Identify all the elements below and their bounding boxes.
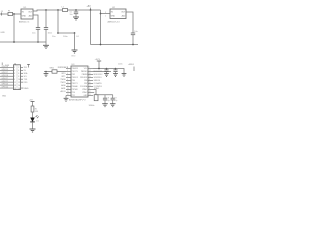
svg-text:1: 1 [105, 16, 106, 18]
svg-text:3: 3 [105, 12, 106, 14]
junction [98, 68, 100, 70]
resistor R1 [31, 106, 38, 113]
svg-text:10u: 10u [70, 14, 73, 16]
junction [90, 9, 92, 11]
wire [44, 71, 66, 73]
svg-text:22p: 22p [114, 100, 117, 102]
label AREF [129, 63, 135, 71]
svg-text:11: 11 [14, 82, 16, 84]
wire [93, 71, 111, 73]
svg-text:PD4: PD4 [72, 80, 75, 82]
capacitor C7 [104, 68, 108, 74]
svg-text:100n: 100n [118, 64, 122, 66]
wire [57, 10, 59, 33]
power flag [29, 100, 35, 107]
J2 left labels [2, 66, 9, 98]
svg-text:16: 16 [18, 88, 20, 90]
wire [45, 72, 47, 74]
ground [72, 50, 78, 53]
svg-text:AMS1117-3.3: AMS1117-3.3 [108, 20, 121, 23]
junction [57, 9, 59, 11]
svg-text:6: 6 [18, 73, 19, 75]
wire [96, 94, 113, 96]
U3 right stubs [88, 69, 93, 96]
J2 right stubs [21, 67, 24, 82]
wire [45, 42, 47, 45]
capacitor C2 [44, 28, 53, 35]
capacitor C6 [131, 31, 139, 35]
svg-text:330: 330 [35, 111, 38, 113]
ground [64, 98, 69, 101]
svg-text:SCL: SCL [24, 76, 28, 78]
wire [13, 14, 15, 42]
svg-text:AIN0: AIN0 [61, 84, 65, 87]
MCU U3 [67, 64, 91, 102]
svg-text:MISO/D12: MISO/D12 [94, 74, 103, 76]
svg-text:GPIO24: GPIO24 [2, 87, 9, 89]
header J2 [2, 63, 20, 90]
svg-text:9: 9 [14, 79, 15, 81]
svg-text:GPIO27: GPIO27 [2, 78, 9, 80]
regulator U2 [108, 7, 127, 23]
svg-text:D1: D1 [36, 121, 38, 123]
svg-text:PD2: PD2 [72, 74, 75, 76]
svg-text:GND: GND [22, 15, 27, 17]
wire rail [91, 44, 139, 46]
connector J1 [1, 11, 4, 16]
fuse F1 [8, 10, 13, 15]
svg-text:PB4/MI: PB4/MI [82, 74, 88, 76]
wire [104, 95, 106, 99]
svg-text:OC0A/D5: OC0A/D5 [94, 82, 102, 85]
ground [110, 104, 116, 107]
crystal Y1 [89, 95, 99, 107]
svg-text:10u: 10u [134, 31, 138, 33]
svg-text:AMS1117-5: AMS1117-5 [19, 21, 30, 24]
svg-text:INT0: INT0 [61, 73, 65, 75]
svg-text:16MHz: 16MHz [89, 105, 95, 107]
wire [104, 100, 106, 104]
svg-text:PB5/SCK: PB5/SCK [80, 77, 88, 79]
wire [93, 90, 96, 95]
ground [44, 74, 49, 77]
power flag [27, 65, 30, 68]
junction [100, 13, 102, 15]
svg-text:RXD0: RXD0 [60, 67, 65, 69]
svg-text:+5V: +5V [87, 6, 92, 8]
svg-text:22p: 22p [107, 100, 110, 102]
svg-text:MOSI/D11: MOSI/D11 [94, 71, 103, 73]
svg-text:GPIO18: GPIO18 [2, 75, 9, 77]
power flag +3V3 [95, 59, 102, 69]
wire [112, 100, 114, 104]
capacitor C9 [103, 98, 107, 100]
svg-text:8: 8 [18, 76, 19, 78]
svg-text:SS/D10: SS/D10 [94, 80, 101, 82]
wire [45, 29, 47, 42]
svg-text:TMR1: TMR1 [60, 82, 65, 84]
wire [126, 12, 133, 33]
power flag +5V [87, 6, 92, 10]
svg-text:5: 5 [14, 73, 15, 75]
wire [32, 112, 34, 118]
J2 pin 16 stub [21, 87, 24, 89]
svg-text:PD6/A0: PD6/A0 [72, 85, 78, 88]
wire [93, 69, 124, 74]
svg-text:10: 10 [18, 79, 20, 81]
wire [33, 10, 101, 11]
wire [112, 95, 114, 99]
svg-text:SCK/D13: SCK/D13 [94, 77, 102, 79]
inductor L1 [62, 6, 68, 11]
ground [104, 74, 109, 77]
wire [65, 96, 67, 99]
svg-text:XTAL1: XTAL1 [82, 88, 87, 91]
svg-text:GND: GND [2, 96, 7, 98]
junction [37, 41, 39, 43]
ground [113, 74, 118, 77]
ground [43, 45, 49, 48]
svg-text:PD1/TX: PD1/TX [72, 71, 79, 73]
svg-text:PD3/OC: PD3/OC [72, 77, 79, 79]
svg-text:INT1: INT1 [61, 76, 65, 78]
wire [100, 10, 102, 45]
wire [132, 35, 134, 45]
svg-text:XTAL2: XTAL2 [82, 91, 87, 94]
svg-text:7: 7 [14, 76, 15, 78]
U3 left stubs [66, 69, 71, 96]
J2 right labels [24, 67, 28, 84]
svg-text:PB7: PB7 [84, 83, 87, 85]
junction [45, 9, 47, 11]
junction [74, 32, 76, 34]
svg-text:PD5/T1: PD5/T1 [72, 83, 78, 85]
wire [33, 15, 38, 28]
svg-text:GND: GND [71, 56, 76, 58]
svg-text:PB3/MO: PB3/MO [81, 71, 88, 73]
svg-text:GPIO22: GPIO22 [2, 81, 9, 83]
J2 left pin wires [0, 67, 14, 88]
regulator U1 [19, 7, 33, 24]
wire [58, 32, 75, 34]
U3 right labels [94, 71, 103, 97]
junction [132, 44, 134, 46]
junction [13, 13, 15, 15]
svg-text:ATMEGA328P-PU: ATMEGA328P-PU [69, 98, 86, 101]
svg-text:PC4/SDA: PC4/SDA [80, 85, 88, 88]
svg-text:13: 13 [14, 85, 16, 87]
switch SW1 [50, 67, 58, 73]
capacitor C8 [113, 68, 117, 74]
junction [57, 32, 59, 34]
svg-text:15: 15 [14, 88, 16, 90]
capacitor C1 [32, 28, 40, 35]
svg-text:PD0/RX: PD0/RX [72, 68, 79, 70]
svg-text:PC0: PC0 [72, 92, 75, 94]
svg-text:3V3: 3V3 [24, 67, 27, 69]
svg-text:ADJ: ADJ [29, 14, 33, 17]
svg-text:1: 1 [14, 67, 15, 69]
junction [45, 71, 47, 73]
wire [90, 10, 92, 45]
junction [13, 41, 15, 43]
ground [73, 17, 79, 20]
svg-text:TMR0: TMR0 [60, 79, 65, 81]
svg-text:GPIO17: GPIO17 [2, 72, 9, 74]
svg-text:AIN1: AIN1 [61, 87, 65, 90]
svg-text:PD7/A1: PD7/A1 [72, 88, 78, 91]
svg-text:R1: R1 [35, 108, 37, 110]
svg-text:GND: GND [24, 88, 29, 90]
wire [101, 13, 111, 15]
svg-text:12: 12 [18, 82, 20, 84]
svg-text:ADC0: ADC0 [60, 90, 65, 93]
wire [0, 13, 8, 15]
junction [100, 44, 102, 46]
LED D1 [30, 115, 39, 123]
ground [102, 104, 108, 107]
svg-text:3: 3 [14, 70, 15, 72]
svg-text:PB6: PB6 [84, 80, 87, 82]
wire [13, 13, 22, 15]
wire [37, 29, 39, 42]
wire [74, 33, 76, 50]
wire [93, 92, 94, 94]
svg-text:GND: GND [111, 15, 116, 17]
svg-text:GPIO14: GPIO14 [2, 66, 9, 68]
ground [122, 74, 127, 77]
svg-text:GND: GND [0, 32, 5, 34]
svg-text:14: 14 [18, 85, 20, 87]
wire [45, 10, 47, 28]
svg-text:AREF: AREF [129, 63, 135, 66]
capacitor C5 [74, 10, 78, 17]
svg-text:GPIO15: GPIO15 [2, 69, 9, 71]
svg-text:PC1: PC1 [72, 95, 75, 97]
svg-text:4: 4 [18, 70, 19, 72]
U3 left labels [60, 67, 65, 93]
wire [32, 122, 34, 129]
svg-text:2: 2 [18, 67, 19, 69]
ground rail wire [0, 41, 46, 43]
svg-text:ADJ: ADJ [122, 14, 126, 17]
ground [30, 129, 36, 132]
svg-text:GPIO23: GPIO23 [2, 84, 9, 86]
junction [75, 9, 77, 11]
capacitor C10 [111, 98, 115, 100]
